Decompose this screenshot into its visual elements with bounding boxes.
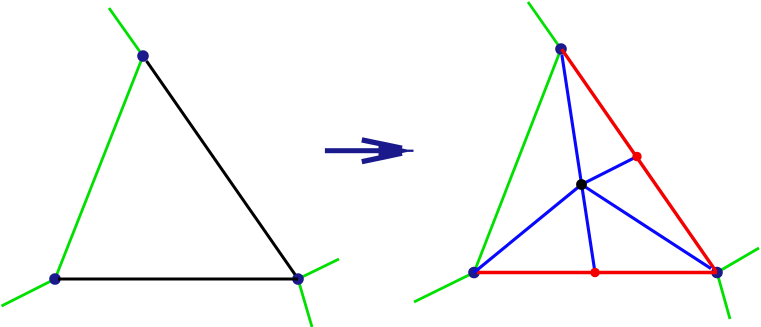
wire: green ray below bottom-left vertex (left figure) <box>2 279 56 306</box>
wire: blue segment bottom-right vertex to center point <box>582 185 712 269</box>
wire: green ray up-right of bottom-right vertex (left figure) <box>298 259 339 279</box>
wire: black bottom side of left triangle <box>58 278 298 281</box>
wire: blue segment bottom-left vertex to center point <box>474 185 582 273</box>
wire: black right side of left triangle <box>147 61 296 275</box>
node: right-side midpoint red dot <box>632 152 641 161</box>
wire: green ray below bottom-right vertex (left figure) <box>298 279 312 327</box>
wire: blue median from top vertex through center to bottom midpoint <box>562 55 595 273</box>
wire: green ray below bottom-left vertex (right figure) <box>414 273 474 303</box>
node: top vertex dot (left figure) <box>137 50 149 62</box>
wire: red bottom side of right triangle <box>477 271 717 274</box>
node: bottom-left vertex dot (right figure) <box>468 267 480 279</box>
node: top vertex dot (right figure) <box>555 43 567 55</box>
wire: green left side, top vertex to bottom-left vertex (left figure) <box>55 56 143 279</box>
node: bottom-left vertex dot (left figure) <box>49 273 61 285</box>
node: bottom-right vertex dot (left figure) <box>292 273 304 285</box>
wire: blue segment center point to right-side midpoint <box>582 157 638 185</box>
wire: red right side of right triangle <box>562 49 716 271</box>
wire: green extension of right side above top vertex (right figure) <box>528 2 561 49</box>
node: bottom midpoint red dot <box>590 268 599 277</box>
arrow: navy transformation arrow <box>325 140 414 162</box>
wire: green ray up-right of bottom-right vertex (right figure) <box>717 248 759 273</box>
node: center black dot <box>576 179 587 190</box>
wire: green ray below bottom-right vertex (right figure) <box>717 273 730 320</box>
wire: green extension of right side above top vertex (left figure) <box>109 8 143 56</box>
wire: green left side, top vertex to bottom-left vertex (right figure) <box>474 49 561 273</box>
node: bottom-right vertex dot (right figure) <box>711 267 723 279</box>
